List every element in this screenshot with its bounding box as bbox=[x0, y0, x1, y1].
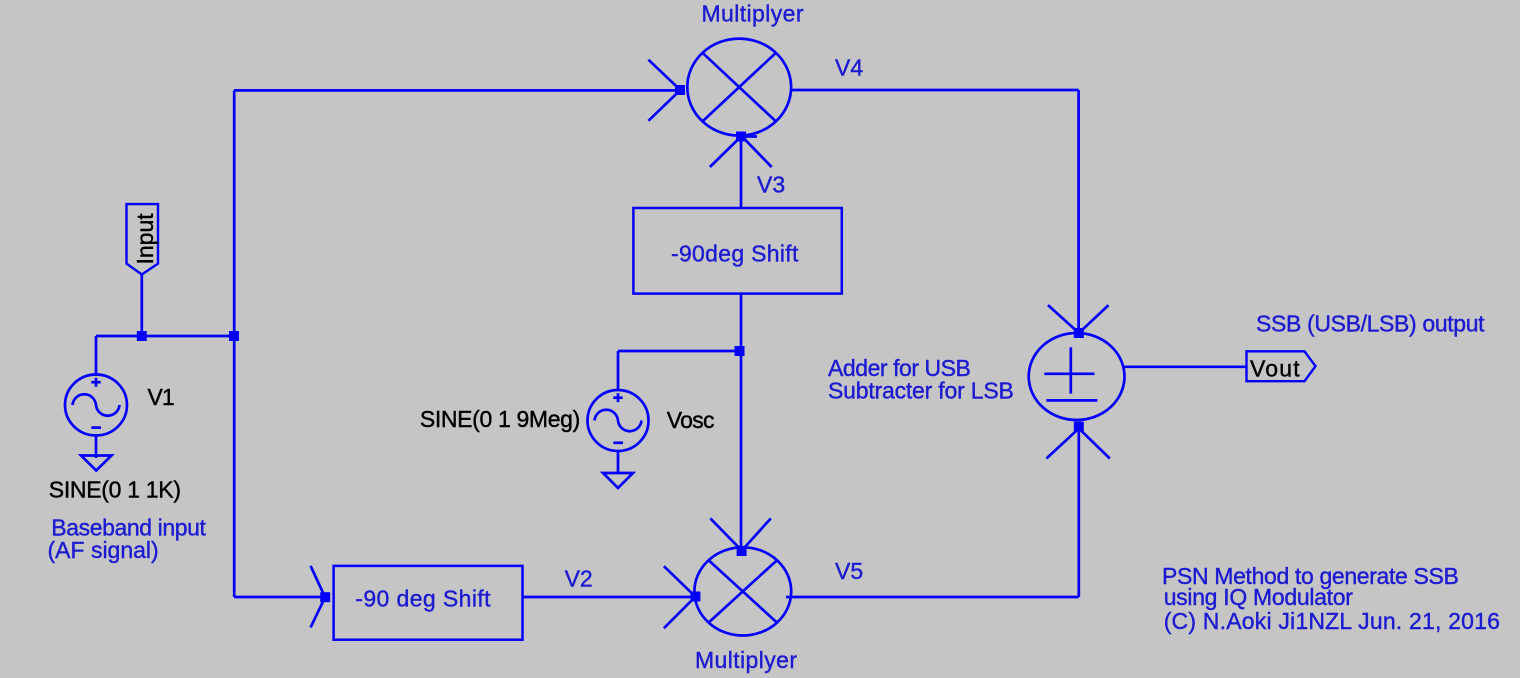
svg-text:(AF signal): (AF signal) bbox=[48, 537, 159, 563]
svg-text:using IQ Modulator: using IQ Modulator bbox=[1164, 584, 1354, 610]
svg-text:V3: V3 bbox=[757, 171, 785, 197]
svg-text:(C) N.Aoki Ji1NZL Jun. 21, 201: (C) N.Aoki Ji1NZL Jun. 21, 2016 bbox=[1164, 608, 1500, 634]
svg-text:Vosc: Vosc bbox=[667, 407, 714, 433]
svg-text:SINE(0 1 1K): SINE(0 1 1K) bbox=[49, 476, 181, 502]
svg-text:Input: Input bbox=[132, 213, 158, 265]
svg-text:Multiplyer: Multiplyer bbox=[695, 647, 797, 673]
svg-text:V5: V5 bbox=[835, 558, 863, 584]
svg-text:SINE(0 1 9Meg): SINE(0 1 9Meg) bbox=[420, 406, 580, 432]
svg-text:Vout: Vout bbox=[1250, 355, 1301, 381]
svg-text:V2: V2 bbox=[565, 566, 593, 592]
svg-text:Multiplyer: Multiplyer bbox=[702, 1, 804, 27]
svg-text:Subtracter for LSB: Subtracter for LSB bbox=[828, 377, 1014, 403]
svg-text:V4: V4 bbox=[835, 55, 863, 81]
svg-text:-90 deg Shift: -90 deg Shift bbox=[355, 586, 491, 612]
svg-text:SSB (USB/LSB) output: SSB (USB/LSB) output bbox=[1256, 311, 1485, 337]
svg-text:-90deg Shift: -90deg Shift bbox=[671, 240, 799, 266]
svg-text:V1: V1 bbox=[148, 384, 174, 410]
